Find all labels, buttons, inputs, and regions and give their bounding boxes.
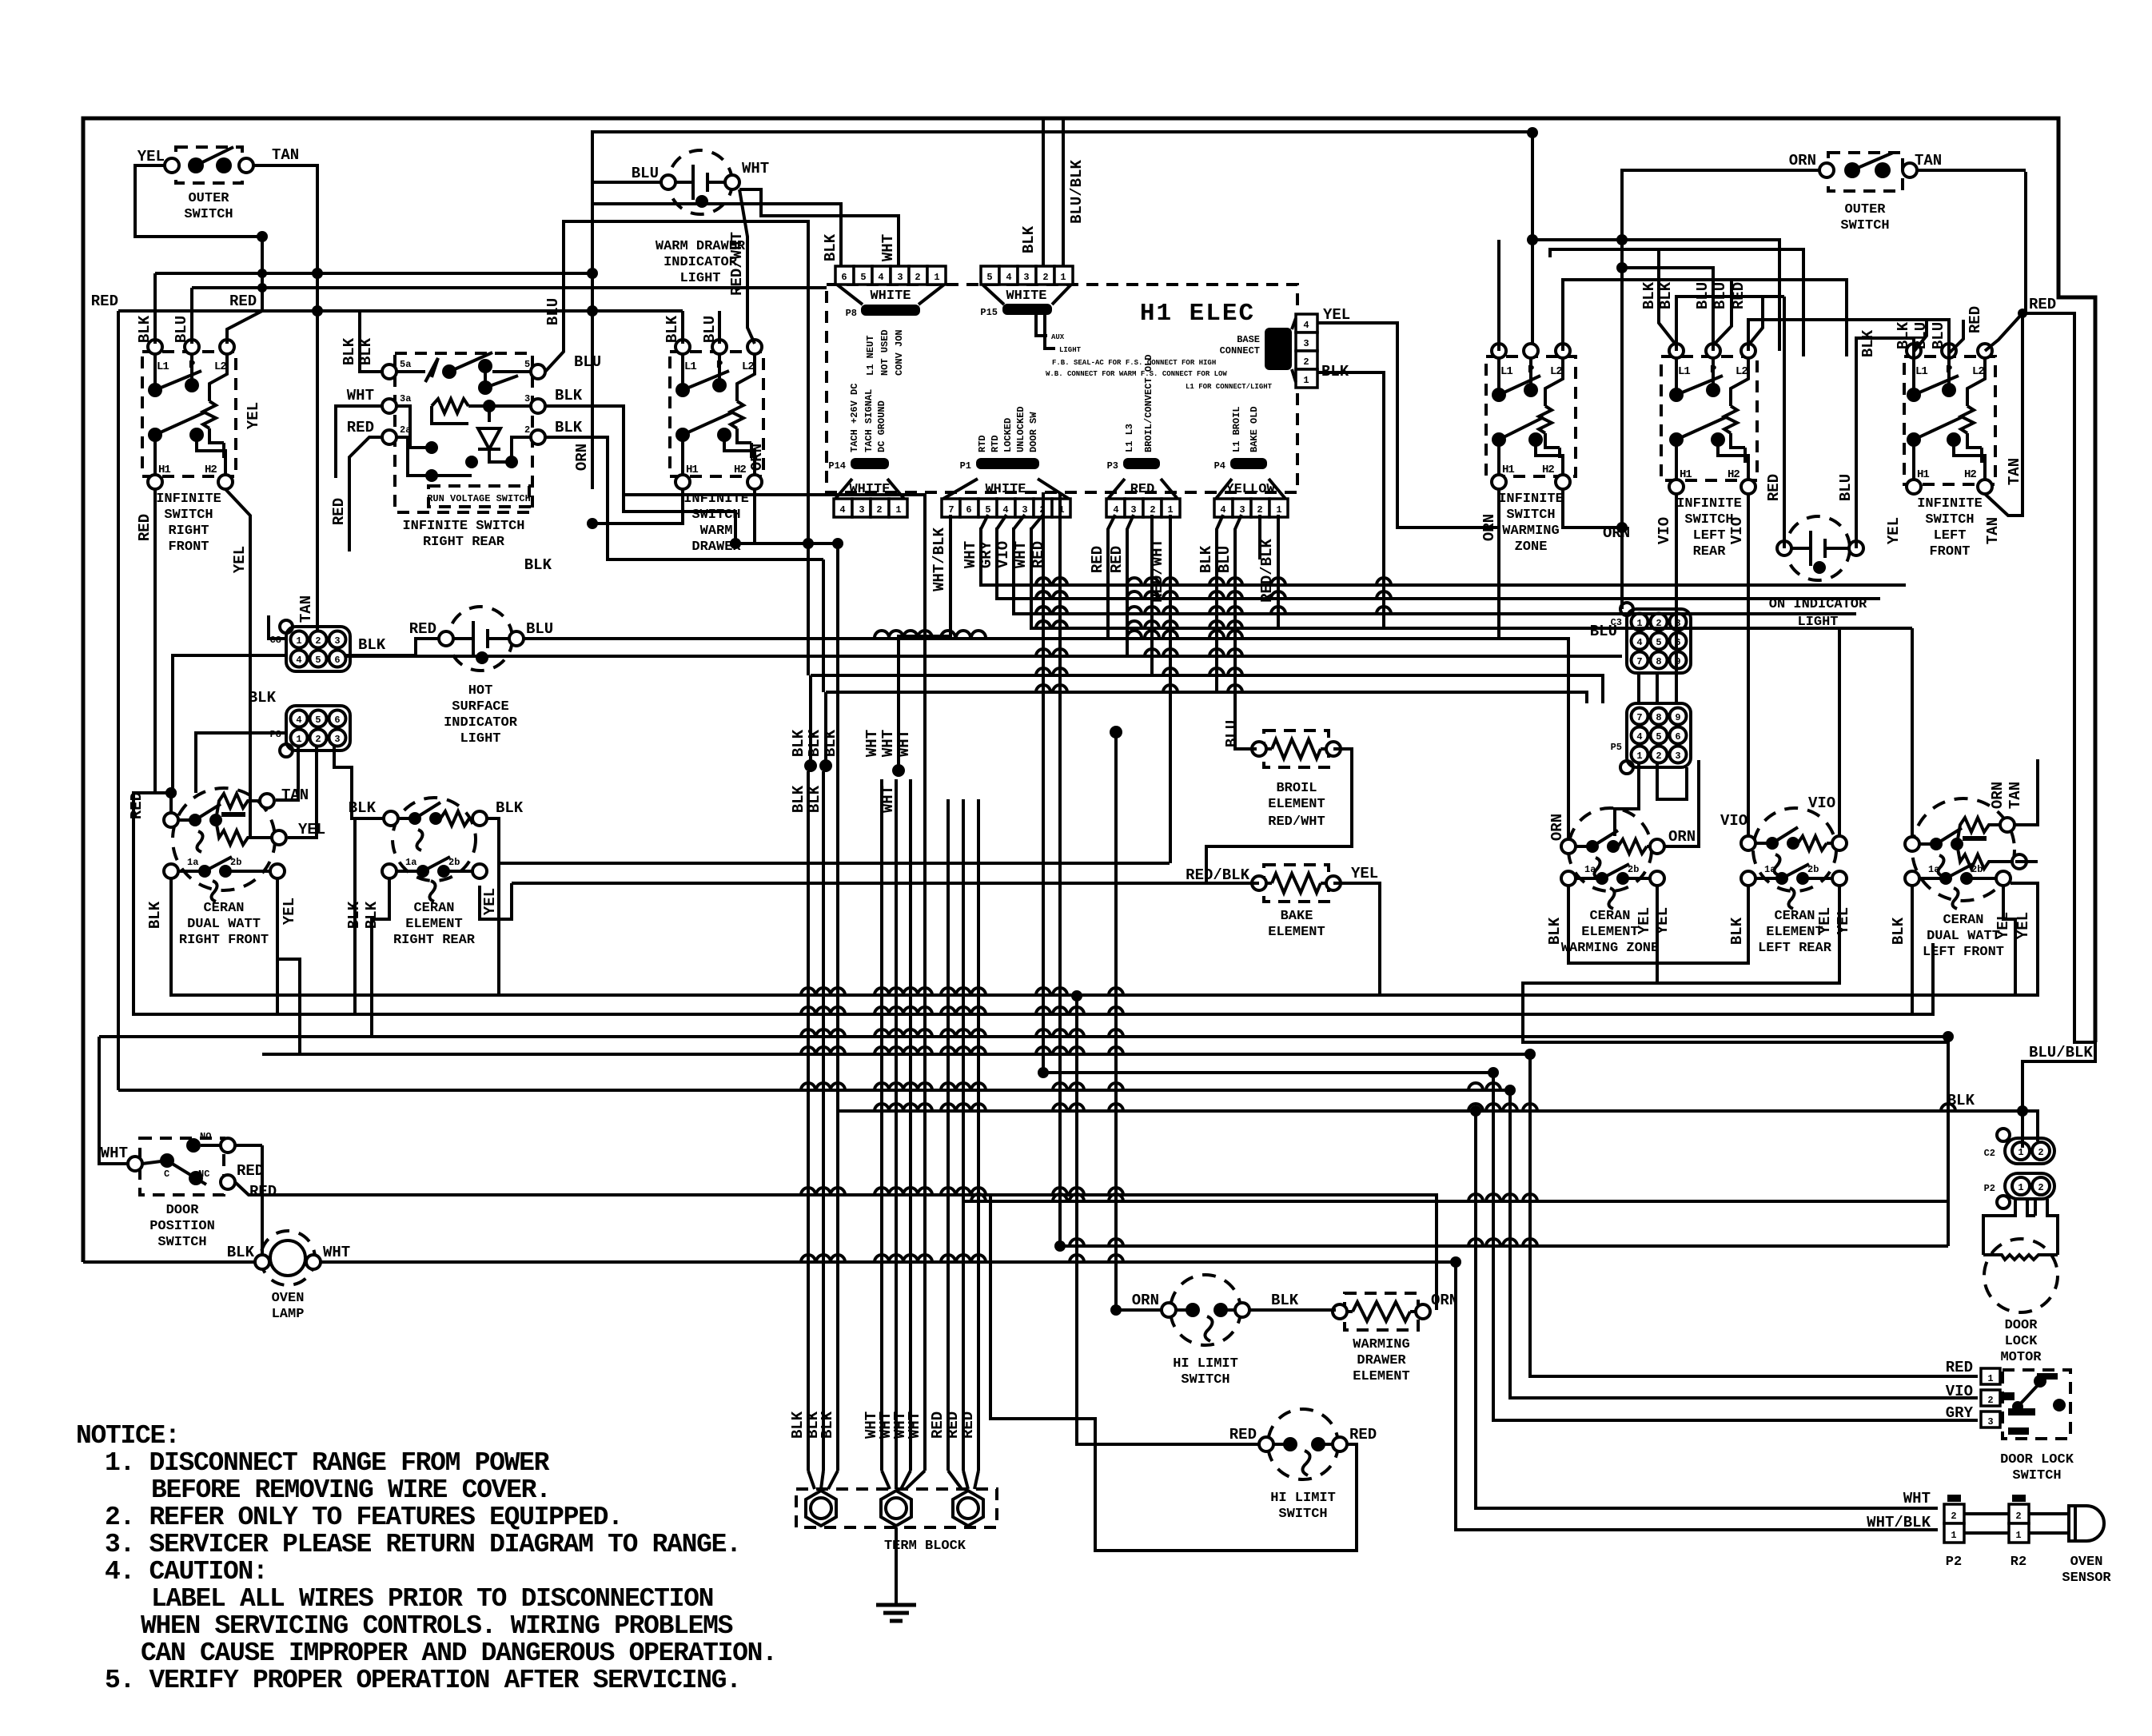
wire C8 BLK right to hot surface RED <box>346 639 439 655</box>
svg-text:2: 2 <box>1042 272 1048 283</box>
ceran element warming zone <box>1561 808 1664 956</box>
svg-text:1a: 1a <box>1764 864 1775 875</box>
svg-text:LOCK: LOCK <box>2005 1334 2038 1349</box>
svg-text:OUTER: OUTER <box>188 191 229 206</box>
outer switch right <box>1819 153 1917 233</box>
outer border wire top <box>83 118 2095 1262</box>
hi limit switch upper <box>1132 1275 1458 1388</box>
svg-text:P3: P3 <box>1107 460 1118 472</box>
wire x167 tie <box>134 793 164 807</box>
svg-text:BLU: BLU <box>632 165 659 182</box>
svg-text:L1: L1 <box>1678 365 1690 378</box>
svg-text:HOT: HOT <box>468 683 493 699</box>
wire S-WD L2 riser RED/WHT <box>739 189 755 344</box>
wire RED to lower hi limit <box>1077 996 1259 1444</box>
svg-text:AUX: AUX <box>1051 333 1065 341</box>
svg-text:YEL: YEL <box>281 898 298 925</box>
svg-text:INFINITE: INFINITE <box>156 492 221 507</box>
svg-text:1. DISCONNECT RANGE FROM POWE: 1. DISCONNECT RANGE FROM POWER <box>105 1448 550 1478</box>
svg-text:RIGHT REAR: RIGHT REAR <box>393 933 476 948</box>
svg-text:1: 1 <box>2015 1530 2021 1541</box>
infinite switch right front <box>142 340 236 555</box>
svg-text:YEL: YEL <box>231 546 249 573</box>
svg-text:YEL: YEL <box>1654 907 1672 934</box>
svg-text:NC: NC <box>198 1169 209 1180</box>
connector header P14 white 4-pin <box>828 384 907 517</box>
wire left mid links <box>807 543 810 675</box>
ceran dual watt left front <box>1905 798 2026 960</box>
wire bake right <box>1333 883 1380 996</box>
svg-text:LEFT FRONT: LEFT FRONT <box>1923 945 2004 960</box>
svg-text:4: 4 <box>878 272 883 283</box>
svg-text:WHEN SERVICING CONTROLS. WIRIN: WHEN SERVICING CONTROLS. WIRING PROBLEMS <box>141 1611 733 1641</box>
connector P5 <box>1611 703 1691 774</box>
connector header P4 yellow 4-pin <box>1214 406 1288 517</box>
svg-text:YEL: YEL <box>137 148 165 165</box>
svg-text:ELEMENT: ELEMENT <box>1268 797 1325 812</box>
svg-text:5: 5 <box>524 359 530 370</box>
svg-text:BLU: BLU <box>1223 720 1241 747</box>
wire S-RF L2 <box>227 311 262 344</box>
H1 ELEC control board box <box>827 285 1297 492</box>
svg-text:GRY: GRY <box>978 540 995 568</box>
svg-text:RED: RED <box>1229 1426 1257 1443</box>
connector C2 <box>1984 1129 2054 1164</box>
svg-text:4: 4 <box>1636 637 1642 648</box>
infinite switch warming zone <box>1486 344 1576 555</box>
svg-text:WHT: WHT <box>101 1145 128 1162</box>
svg-text:P15: P15 <box>980 307 998 318</box>
svg-text:VIO: VIO <box>994 541 1012 568</box>
wire BLK pair slant to S-LF L1 <box>1914 320 1927 352</box>
svg-text:RED/BLK: RED/BLK <box>1186 866 1249 884</box>
wire ORN to hi limit <box>1116 732 1162 1310</box>
svg-text:BLK: BLK <box>1728 917 1746 945</box>
svg-text:YEL: YEL <box>2015 912 2032 939</box>
term block <box>796 1489 997 1554</box>
svg-text:LIGHT: LIGHT <box>679 271 720 286</box>
svg-text:ORN: ORN <box>1132 1292 1159 1309</box>
svg-text:H1: H1 <box>1502 464 1514 476</box>
svg-text:BLK: BLK <box>1640 281 1658 309</box>
svg-text:BLK: BLK <box>1198 545 1215 573</box>
wire S-RR 5 BLU up <box>545 221 808 543</box>
wire P8 left BLK <box>196 733 286 793</box>
wire lamp riser <box>261 1145 264 1255</box>
svg-text:LEFT: LEFT <box>1934 528 1967 543</box>
svg-text:7: 7 <box>1636 656 1642 667</box>
svg-text:ELEMENT: ELEMENT <box>1353 1369 1409 1384</box>
svg-text:L1: L1 <box>1915 365 1927 378</box>
svg-text:TAN: TAN <box>1915 152 1942 169</box>
svg-text:TAN: TAN <box>297 595 315 623</box>
svg-text:SWITCH: SWITCH <box>1181 1372 1229 1388</box>
connector C8 <box>270 620 350 671</box>
connector header P3 red 4-pin <box>1106 355 1180 517</box>
svg-text:1: 1 <box>1987 1373 1993 1384</box>
svg-text:BLK: BLK <box>1020 225 1038 253</box>
svg-text:GRY: GRY <box>1946 1404 1974 1422</box>
svg-text:BLK: BLK <box>363 901 381 929</box>
svg-text:LAMP: LAMP <box>272 1307 305 1322</box>
wire C8 pin4 left <box>173 655 286 793</box>
svg-text:RED: RED <box>1765 474 1783 501</box>
svg-text:L2: L2 <box>1550 365 1562 378</box>
wire P3 pin leads <box>1089 515 1170 863</box>
svg-text:BLU: BLU <box>1590 623 1617 640</box>
svg-text:RED: RED <box>347 419 374 436</box>
ceran element left rear <box>1741 808 1847 956</box>
svg-text:2: 2 <box>915 272 920 283</box>
svg-text:ORN: ORN <box>1431 1292 1458 1309</box>
svg-text:1a: 1a <box>1584 864 1596 875</box>
svg-text:WHT: WHT <box>895 730 913 757</box>
svg-text:ZONE: ZONE <box>1515 540 1548 555</box>
svg-text:1: 1 <box>1276 504 1281 516</box>
wire right cluster buses <box>1499 234 2022 548</box>
svg-text:RTD: RTD <box>977 435 988 452</box>
wire right inner RED riser <box>2022 313 2095 1042</box>
svg-text:H2: H2 <box>734 464 746 476</box>
svg-text:H2: H2 <box>1728 468 1740 481</box>
svg-text:LEFT: LEFT <box>1693 528 1726 543</box>
wire C3 P5 links <box>1615 674 1687 836</box>
svg-text:DC GROUND: DC GROUND <box>876 400 887 452</box>
svg-text:INDICATOR: INDICATOR <box>664 255 738 270</box>
warming drawer element <box>1333 1293 1430 1384</box>
svg-text:H2: H2 <box>1964 468 1976 481</box>
svg-text:POSITION: POSITION <box>149 1219 215 1234</box>
svg-text:L1: L1 <box>684 360 696 373</box>
on indicator light <box>1769 516 1867 630</box>
svg-text:WARMING: WARMING <box>1502 524 1559 539</box>
svg-text:CAN CAUSE IMPROPER AND DANGERO: CAN CAUSE IMPROPER AND DANGEROUS OPERATI… <box>141 1638 777 1668</box>
svg-text:BROIL/CONVECT OLD: BROIL/CONVECT OLD <box>1143 355 1154 452</box>
svg-text:CERAN: CERAN <box>1589 909 1630 924</box>
wire BLK WHT from header P8 <box>592 189 899 266</box>
svg-text:BLK: BLK <box>1895 321 1912 349</box>
svg-text:1a: 1a <box>187 857 198 868</box>
svg-text:WARMING: WARMING <box>1353 1337 1409 1352</box>
door lock switch <box>1946 1359 2074 1483</box>
svg-text:INFINITE SWITCH: INFINITE SWITCH <box>402 519 524 534</box>
svg-text:TAN: TAN <box>2007 782 2024 809</box>
svg-text:WHT: WHT <box>879 730 897 757</box>
svg-text:BLU: BLU <box>544 298 562 325</box>
svg-text:BLK: BLK <box>555 387 583 404</box>
wire bus band A <box>981 528 1912 628</box>
svg-text:6: 6 <box>1675 731 1680 743</box>
svg-text:3a: 3a <box>400 393 411 404</box>
svg-text:1: 1 <box>296 635 301 647</box>
wire BLK from green header <box>1317 372 1384 628</box>
wire WHT to door position switch <box>99 1037 128 1164</box>
svg-text:SWITCH: SWITCH <box>164 508 213 523</box>
svg-text:WHITE: WHITE <box>985 482 1026 497</box>
svg-text:1: 1 <box>1951 1530 1956 1541</box>
node RED junction right <box>2018 309 2027 318</box>
svg-text:RED: RED <box>959 1411 977 1439</box>
svg-text:1: 1 <box>296 734 301 745</box>
svg-text:BLK: BLK <box>341 337 358 365</box>
svg-text:1a: 1a <box>1928 864 1939 875</box>
svg-text:2: 2 <box>2038 1182 2043 1193</box>
wire bus band B <box>346 639 1622 839</box>
svg-text:2: 2 <box>876 504 882 516</box>
svg-text:3: 3 <box>334 635 340 647</box>
svg-text:NO: NO <box>200 1131 211 1142</box>
svg-text:VIO: VIO <box>1808 794 1835 812</box>
connector C3 <box>1611 603 1691 673</box>
svg-text:3: 3 <box>1130 504 1136 516</box>
svg-text:H2: H2 <box>1542 464 1554 476</box>
hot surface indicator light <box>409 607 553 747</box>
svg-text:TAN: TAN <box>281 786 309 804</box>
wire S-WZ H2 <box>1563 489 1622 528</box>
svg-text:RED: RED <box>2029 296 2056 313</box>
svg-text:BLU: BLU <box>1216 546 1233 573</box>
svg-text:RED: RED <box>1967 306 1984 333</box>
svg-text:2b: 2b <box>1628 864 1639 875</box>
svg-text:ORN: ORN <box>1789 152 1816 169</box>
svg-text:1a: 1a <box>405 857 416 868</box>
svg-text:BLK: BLK <box>790 729 807 757</box>
svg-text:5: 5 <box>985 504 990 516</box>
svg-text:INFINITE: INFINITE <box>1498 492 1564 507</box>
svg-text:RED: RED <box>229 293 257 310</box>
svg-text:BLK: BLK <box>249 689 277 707</box>
svg-text:BLK: BLK <box>358 636 386 654</box>
wire ceran RR bottom right <box>480 883 512 919</box>
svg-text:SWITCH: SWITCH <box>1925 512 1974 528</box>
svg-text:BLU/BLK: BLU/BLK <box>1068 160 1086 224</box>
wire bundle to term block <box>789 675 978 1489</box>
svg-text:ELEMENT: ELEMENT <box>1766 925 1823 940</box>
svg-text:WHT: WHT <box>1903 1490 1931 1507</box>
svg-text:P14: P14 <box>828 460 846 472</box>
svg-text:7: 7 <box>948 504 954 516</box>
svg-text:L1 BROIL: L1 BROIL <box>1231 406 1242 452</box>
svg-text:P1: P1 <box>960 460 971 472</box>
wire ceran RR bottom left <box>372 878 389 1037</box>
wire bus y360 <box>192 286 827 289</box>
svg-text:RED: RED <box>128 792 145 819</box>
connector header P8 white 6-pin <box>835 266 946 376</box>
svg-text:2: 2 <box>1656 751 1661 762</box>
svg-text:ORN: ORN <box>1989 782 2007 809</box>
wire hop bumps band AB <box>875 578 1242 692</box>
wire second top horizontal <box>592 132 1532 344</box>
oven sensor <box>1867 1490 2111 1586</box>
svg-text:BLU: BLU <box>1930 322 1947 349</box>
wire oven lamp WHT <box>321 1262 1938 1530</box>
wire bus y342 <box>155 272 592 275</box>
svg-text:P4: P4 <box>1214 460 1225 472</box>
svg-text:WHT: WHT <box>863 730 881 757</box>
svg-text:GREEN: GREEN <box>1281 340 1292 369</box>
svg-text:ELEMENT: ELEMENT <box>1268 925 1325 940</box>
svg-text:FRONT: FRONT <box>168 540 209 555</box>
svg-text:2b: 2b <box>1971 864 1983 875</box>
svg-text:INFINITE: INFINITE <box>1676 496 1742 512</box>
outer switch left (dashed box) <box>137 146 299 222</box>
svg-text:RIGHT FRONT: RIGHT FRONT <box>179 933 269 948</box>
svg-text:YEL: YEL <box>1885 517 1903 544</box>
svg-text:H1: H1 <box>686 464 698 476</box>
svg-text:ORN: ORN <box>573 444 591 471</box>
wire S-RR 2a feed RED <box>349 437 382 551</box>
svg-text:R2: R2 <box>2011 1555 2026 1570</box>
svg-text:4: 4 <box>1636 731 1642 743</box>
wire ORN outer switch to left riser <box>1622 152 2026 609</box>
svg-text:4: 4 <box>1220 504 1225 516</box>
svg-text:BLK: BLK <box>664 315 681 343</box>
svg-text:TAN: TAN <box>272 146 299 164</box>
wire S-RR 3a feed WHT <box>336 406 382 478</box>
svg-text:YEL: YEL <box>1351 865 1378 882</box>
svg-text:1: 1 <box>1167 504 1173 516</box>
svg-text:CERAN: CERAN <box>1774 909 1815 924</box>
svg-text:BROIL: BROIL <box>1276 781 1317 796</box>
svg-text:YEL: YEL <box>1816 907 1834 934</box>
svg-text:RED: RED <box>409 620 436 638</box>
wire S-RF L1 <box>153 273 157 344</box>
svg-text:WHT/BLK: WHT/BLK <box>1867 1514 1931 1531</box>
svg-text:SWITCH: SWITCH <box>691 508 740 523</box>
svg-text:CONNECT: CONNECT <box>1220 345 1260 356</box>
svg-text:INDICATOR: INDICATOR <box>444 715 518 731</box>
svg-text:3: 3 <box>1022 504 1027 516</box>
bake element <box>1186 865 1378 940</box>
svg-text:WHT: WHT <box>347 387 374 404</box>
svg-text:3: 3 <box>1303 338 1309 349</box>
door position switch <box>101 1131 277 1250</box>
svg-text:RED: RED <box>1108 546 1126 573</box>
svg-text:5: 5 <box>1656 637 1661 648</box>
svg-text:BLU: BLU <box>1837 474 1855 501</box>
svg-text:WARM: WARM <box>700 524 733 539</box>
svg-text:TACH +26V DC: TACH +26V DC <box>849 384 860 452</box>
warm drawer indicator light <box>632 150 769 286</box>
wire S-RF P <box>190 288 193 344</box>
svg-text:BLK: BLK <box>790 785 807 813</box>
svg-text:2b: 2b <box>448 857 460 868</box>
wire ceran WZ right ORN <box>1664 760 1699 846</box>
svg-text:RED: RED <box>1089 546 1106 573</box>
svg-text:RIGHT REAR: RIGHT REAR <box>423 535 505 550</box>
svg-text:BLK: BLK <box>1890 917 1907 945</box>
svg-text:2: 2 <box>315 635 321 647</box>
svg-text:P8: P8 <box>846 308 857 319</box>
svg-text:BLK: BLK <box>555 419 583 436</box>
svg-text:SURFACE: SURFACE <box>452 699 508 715</box>
svg-text:9: 9 <box>1675 712 1680 723</box>
svg-text:C: C <box>164 1169 169 1180</box>
svg-text:C2: C2 <box>1984 1148 1995 1159</box>
wire P1 pin leads <box>899 515 1047 770</box>
svg-text:L1: L1 <box>157 360 169 373</box>
svg-text:TAN: TAN <box>1984 517 2002 544</box>
svg-text:3: 3 <box>334 734 340 745</box>
svg-text:5: 5 <box>1656 731 1661 743</box>
svg-text:RED: RED <box>237 1162 264 1180</box>
svg-text:2: 2 <box>1257 504 1262 516</box>
svg-text:MOTOR: MOTOR <box>2000 1350 2042 1365</box>
svg-text:6: 6 <box>966 504 971 516</box>
svg-text:6: 6 <box>334 655 340 666</box>
wire YEL outer switch loop <box>135 165 262 311</box>
svg-text:RED: RED <box>1349 1426 1377 1443</box>
svg-text:VIO: VIO <box>1728 517 1746 544</box>
svg-text:7: 7 <box>1636 712 1642 723</box>
svg-text:BASE: BASE <box>1237 334 1260 345</box>
wire TAN outer switch to C8 <box>253 165 317 630</box>
svg-text:BLU: BLU <box>1712 282 1729 309</box>
wire BLK pair slant to S-LR L1 <box>1659 249 1676 345</box>
broil element <box>1252 731 1341 830</box>
svg-text:BLK: BLK <box>822 233 839 261</box>
svg-text:P5: P5 <box>1611 742 1622 753</box>
wire S-RR 3 BLK long <box>624 495 925 779</box>
wire YEL from green header <box>1317 323 1499 528</box>
svg-text:L1: L1 <box>1500 365 1512 378</box>
svg-text:YELLOW: YELLOW <box>1225 482 1275 497</box>
wire ceran LF left YEL up <box>1911 628 1914 837</box>
svg-text:H2: H2 <box>205 464 217 476</box>
svg-text:4. CAUTION:: 4. CAUTION: <box>105 1557 268 1587</box>
svg-text:WHITE: WHITE <box>870 289 911 304</box>
svg-text:4: 4 <box>1303 320 1309 331</box>
svg-text:2b: 2b <box>1807 864 1819 875</box>
svg-text:RED: RED <box>1946 1359 1973 1376</box>
ceran dual watt right front <box>164 788 286 948</box>
wire ceran RR top left BLK <box>355 818 384 1014</box>
svg-text:LEFT REAR: LEFT REAR <box>1758 941 1832 956</box>
svg-text:3: 3 <box>1987 1416 1993 1427</box>
svg-text:SENSOR: SENSOR <box>2062 1571 2111 1586</box>
svg-text:UNLOCKED: UNLOCKED <box>1015 406 1026 452</box>
svg-text:WHT: WHT <box>323 1244 350 1261</box>
svg-text:SWITCH: SWITCH <box>1684 512 1733 528</box>
wire P8 pins down <box>276 745 298 800</box>
wire warm drawer light BLU <box>592 182 661 204</box>
svg-text:TACH SIGNAL: TACH SIGNAL <box>863 389 875 452</box>
svg-text:2: 2 <box>2038 1147 2043 1158</box>
svg-text:NOTICE:: NOTICE: <box>76 1421 180 1451</box>
wire bus RED y389 <box>118 309 683 313</box>
ceran element right rear <box>382 798 487 948</box>
svg-text:L1 L3: L1 L3 <box>1124 424 1135 452</box>
svg-text:2. REFER ONLY TO FEATURES EQU: 2. REFER ONLY TO FEATURES EQUIPPED. <box>105 1503 623 1532</box>
svg-text:WARMING ZONE: WARMING ZONE <box>1561 941 1659 956</box>
svg-text:DOOR LOCK: DOOR LOCK <box>2000 1452 2074 1467</box>
wire S-WZ H1 ORN down <box>1497 489 1500 639</box>
connector header P15 white 5-pin <box>980 266 1272 391</box>
svg-text:BEFORE REMOVING WIRE COVER.: BEFORE REMOVING WIRE COVER. <box>151 1475 551 1505</box>
svg-text:BLU: BLU <box>173 316 190 343</box>
svg-text:4: 4 <box>1002 504 1008 516</box>
hi limit switch lower <box>1229 1409 1377 1522</box>
svg-text:WHITE: WHITE <box>1006 289 1046 304</box>
svg-text:1: 1 <box>895 504 901 516</box>
svg-text:L1 NEUT: L1 NEUT <box>865 336 876 376</box>
svg-text:CONV JON: CONV JON <box>894 329 905 376</box>
wire C8 left <box>269 615 286 639</box>
svg-text:SWITCH: SWITCH <box>1506 508 1555 523</box>
svg-text:H1: H1 <box>1917 468 1929 481</box>
svg-text:WHT/BLK: WHT/BLK <box>931 528 948 591</box>
svg-text:LABEL ALL WIRES PRIOR TO DISCO: LABEL ALL WIRES PRIOR TO DISCONNECTION <box>151 1584 713 1614</box>
